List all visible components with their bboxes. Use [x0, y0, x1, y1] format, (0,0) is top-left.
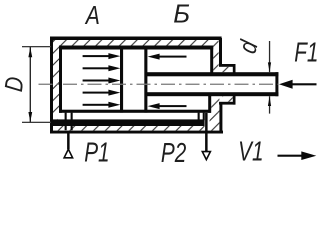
- P2 open arrowhead down: [202, 152, 210, 160]
- piston right edge: [144, 46, 147, 113]
- hatch neck bottom inner: [222, 96, 232, 102]
- left chamber arrow 5: [83, 102, 121, 108]
- F1 force arrow: [279, 80, 317, 89]
- svg-text:F1: F1: [294, 38, 318, 69]
- hatch left wall bottom corner: [53, 113, 58, 120]
- neck right face upper: [233, 64, 236, 74]
- hatch cap top block: [213, 46, 218, 73]
- neck right face lower: [233, 95, 236, 105]
- d dimension arrow down to rod top: [268, 62, 271, 72]
- P2 port wall tick right: [203, 113, 205, 121]
- left chamber arrow 4: [83, 90, 121, 96]
- left chamber arrow 1: [83, 53, 121, 59]
- left chamber arrow 2: [83, 65, 121, 71]
- svg-text:P1: P1: [84, 138, 109, 169]
- D dimension arrow down: [28, 112, 32, 122]
- cap outer face upper: [219, 38, 222, 66]
- P1 port wall tick left: [65, 113, 67, 131]
- V1 velocity arrow: [278, 151, 317, 160]
- d dimension line upper: [269, 41, 270, 72]
- cylinder outer top line: [50, 37, 222, 41]
- hatch cap bottom block below bore: [210, 113, 220, 131]
- hatch cap bottom block beside rod: [211, 96, 219, 113]
- bore top line: [59, 46, 213, 50]
- D dimension arrow up: [28, 47, 32, 57]
- cap inner face upper: [210, 46, 213, 74]
- cap inner face lower: [208, 95, 211, 113]
- rod end face: [275, 72, 278, 96]
- cylinder outer left line: [50, 37, 53, 134]
- bottom plate bottom line: [50, 131, 223, 134]
- svg-text:V1: V1: [238, 137, 263, 168]
- bore bottom line: [59, 110, 211, 113]
- left chamber arrow 3: [83, 78, 121, 84]
- D dimension extension line bottom: [22, 122, 51, 123]
- P1 open arrowhead up: [64, 149, 73, 158]
- svg-text:Б: Б: [173, 0, 190, 28]
- hatch neck top inner: [222, 67, 233, 72]
- piston left edge: [120, 46, 123, 113]
- D dimension extension line top: [22, 46, 51, 47]
- neck top line: [219, 64, 236, 67]
- P1 port wall tick right: [71, 113, 73, 131]
- P2 port wall tick left: [198, 113, 200, 121]
- d dimension line lower: [269, 96, 270, 113]
- cap outer face lower: [219, 103, 222, 134]
- P2 stem: [205, 113, 208, 152]
- rod bottom line: [146, 92, 278, 96]
- svg-text:P2: P2: [161, 138, 187, 169]
- P1 stem: [67, 134, 70, 150]
- hatch bottom plate zone: [53, 126, 205, 131]
- hatch left wall band: [53, 40, 59, 113]
- right chamber arrow bottom: [148, 103, 187, 109]
- hatch top wall band: [53, 40, 219, 46]
- bore left line: [59, 46, 62, 113]
- bottom plate top thick band: [50, 119, 205, 126]
- d dimension arrow up to rod bottom: [268, 96, 271, 106]
- neck bottom line: [219, 102, 236, 105]
- axis center line: [39, 83, 278, 85]
- rod top line: [146, 72, 278, 76]
- D dimension line: [30, 47, 31, 122]
- right chamber arrow top: [148, 54, 187, 60]
- svg-text:А: А: [84, 1, 100, 29]
